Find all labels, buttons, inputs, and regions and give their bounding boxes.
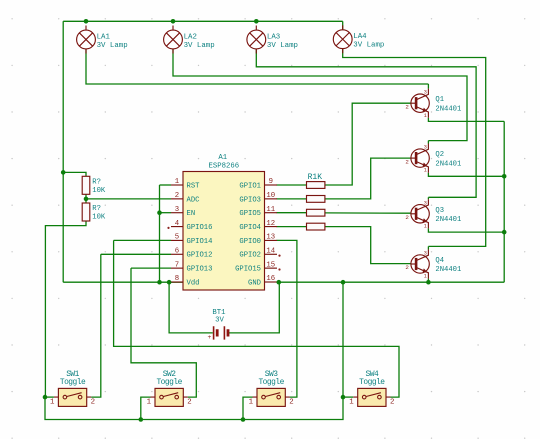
svg-text:3: 3 (424, 145, 427, 151)
svg-text:GPIO1: GPIO1 (239, 182, 261, 190)
svg-text:Q3: Q3 (435, 207, 444, 215)
wire R3 to Q3 base (325, 212, 411, 214)
lamp LA3 3V Lamp (247, 26, 298, 54)
junction LA2 top on rail (171, 19, 176, 24)
svg-text:EN: EN (187, 210, 196, 218)
wire pin 11 to R3 (277, 212, 307, 214)
wire RST pin 1 (160, 184, 172, 186)
svg-text:1: 1 (424, 223, 427, 229)
junction EN tap (157, 210, 162, 215)
svg-text:3: 3 (175, 206, 179, 214)
wire rail drop to LA4 (342, 21, 344, 29)
junction divider midpoint / ADC (84, 197, 89, 202)
svg-text:ADC: ADC (187, 196, 201, 204)
wire Q1 collector stub join (427, 84, 429, 89)
svg-text:5: 5 (175, 234, 179, 242)
wire GPIO14 to SW4 pin 2 (114, 240, 399, 397)
svg-text:4: 4 (175, 220, 180, 228)
wire pin 10 to R2 (277, 198, 307, 200)
svg-text:A1: A1 (218, 154, 227, 162)
wire LA4 bottom to Q4 collector (343, 49, 486, 247)
svg-text:12: 12 (266, 220, 275, 228)
switch SW3 Toggle (249, 370, 294, 407)
lamp LA2 3V Lamp (164, 26, 215, 54)
junction SW1 pin 1 (43, 395, 48, 400)
svg-text:7: 7 (175, 261, 179, 269)
svg-text:Q1: Q1 (435, 96, 444, 104)
wire top supply rail (lamp commons) (63, 20, 343, 22)
junction Q3 emitter on emitter bus (502, 230, 507, 235)
wire bus to SW1 pin 1 (45, 396, 54, 398)
wire emitter bus vertical (503, 121, 505, 282)
svg-text:LA2: LA2 (184, 33, 197, 41)
resistor R4 (R1K network) (307, 223, 325, 230)
wire bus to SW2 pin 1 (141, 397, 151, 419)
junction SW3 drop on bus (241, 417, 246, 422)
svg-text:LA4: LA4 (353, 33, 367, 41)
svg-text:LA3: LA3 (267, 33, 280, 41)
svg-text:Toggle: Toggle (156, 378, 182, 387)
wire LA1 bottom to Q1 collector (86, 49, 428, 84)
svg-text:Q2: Q2 (435, 151, 444, 159)
svg-text:10K: 10K (92, 187, 106, 195)
switch SW2 Toggle (147, 370, 192, 407)
junction rail to divider (61, 170, 66, 175)
wire left supply rail down to Vdd line (62, 21, 64, 282)
svg-text:LA1: LA1 (97, 33, 111, 41)
junction SW4 pin 1 (341, 395, 346, 400)
svg-text:11: 11 (266, 206, 275, 214)
svg-text:2: 2 (405, 158, 409, 165)
svg-text:ESP8266: ESP8266 (208, 163, 239, 171)
svg-text:2: 2 (390, 399, 394, 407)
op-amp/IC A1 ESP8266 (167, 154, 280, 290)
resistor R2 (R1K network) (307, 196, 325, 203)
wire Q3 emitter to emitter bus (428, 228, 504, 232)
junction switch bus on GND line (341, 280, 346, 285)
svg-text:3: 3 (424, 200, 427, 206)
wire LA3 bottom to Q3 collector (256, 49, 476, 198)
svg-text:3V Lamp: 3V Lamp (97, 42, 128, 50)
svg-text:Toggle: Toggle (258, 378, 284, 387)
svg-text:Vdd: Vdd (187, 279, 200, 287)
svg-text:2: 2 (91, 399, 95, 407)
wire RST/EN tie vertical to Vdd line (159, 185, 161, 282)
resistor R3 (R1K network) (307, 209, 325, 216)
battery BT1 3V (208, 309, 228, 341)
transistor Q3 2N4401 NPN (405, 199, 461, 229)
svg-text:GPIO15: GPIO15 (235, 266, 261, 274)
svg-text:8: 8 (175, 275, 179, 283)
lamp LA4 3V Lamp (333, 25, 384, 53)
switch SW4 Toggle (349, 370, 394, 407)
wire GPIO14 pin 5 (114, 239, 171, 241)
svg-text:GPIO4: GPIO4 (239, 224, 261, 232)
junction LA3 top on rail (254, 19, 259, 24)
wire pin 12 to R4 (277, 226, 307, 228)
svg-text:2: 2 (405, 103, 409, 110)
wire EN pin 3 (160, 212, 172, 214)
svg-text:Toggle: Toggle (60, 378, 86, 387)
wire bus to SW3 pin 1 (243, 397, 253, 419)
junction Q2 emitter on emitter bus (502, 174, 507, 179)
svg-text:14: 14 (266, 247, 275, 255)
wire rail to divider top R7a (63, 172, 86, 176)
svg-text:GPIO16: GPIO16 (187, 224, 213, 232)
svg-text:3: 3 (424, 251, 427, 257)
lamp LA1 3V Lamp (77, 26, 128, 54)
wire GND line: pin 16 to emitter bus (277, 281, 505, 283)
svg-text:1: 1 (175, 178, 180, 186)
svg-text:13: 13 (266, 234, 275, 242)
svg-text:6: 6 (175, 247, 179, 255)
transistor Q1 2N4401 NPN (405, 89, 461, 119)
svg-text:2N4401: 2N4401 (435, 266, 461, 274)
svg-text:GPIO0: GPIO0 (239, 238, 261, 246)
wire Q2 collector stub join (427, 141, 429, 144)
svg-text:+: + (208, 334, 212, 341)
svg-text:1: 1 (424, 274, 427, 280)
svg-text:1: 1 (424, 113, 427, 119)
wire GPIO12 pin 6 (101, 253, 171, 255)
svg-text:2: 2 (405, 264, 409, 271)
junction RST/EN tie on Vdd line (157, 280, 162, 285)
svg-text:2: 2 (175, 192, 179, 200)
svg-text:GPIO12: GPIO12 (187, 252, 213, 260)
svg-text:R1K: R1K (308, 173, 323, 182)
transistor Q4 2N4401 NPN (405, 249, 461, 279)
svg-text:15: 15 (266, 261, 275, 269)
wire R2 to Q2 base (325, 158, 411, 199)
wire Q4 collector stub join (427, 246, 429, 249)
wire between divider resistors (85, 194, 87, 203)
svg-text:3V Lamp: 3V Lamp (184, 42, 215, 50)
svg-text:Q4: Q4 (435, 257, 444, 265)
svg-text:R?: R? (92, 179, 101, 187)
svg-text:10K: 10K (92, 214, 106, 222)
svg-text:R?: R? (92, 205, 101, 213)
junction LA1 top on rail (84, 19, 89, 24)
wire GPIO0 pin 13 to SW3 pin 2 (277, 240, 297, 397)
wire R4 to Q4 base (325, 227, 411, 264)
wire Vdd line: rail to pin 8 Vdd (63, 281, 183, 283)
svg-text:1: 1 (424, 168, 427, 174)
wire R1 to Q1 base (325, 103, 411, 185)
svg-text:2: 2 (289, 399, 293, 407)
svg-text:GPIO14: GPIO14 (187, 238, 213, 246)
svg-text:GND: GND (248, 279, 261, 287)
resistor R? 10K (82, 176, 106, 195)
transistor Q2 2N4401 NPN (405, 144, 461, 174)
svg-text:3V Lamp: 3V Lamp (353, 42, 384, 50)
wire GND to switch common bus (45, 282, 343, 419)
wire GPIO12 to SW1 pin 2 (91, 254, 101, 397)
svg-text:9: 9 (269, 178, 273, 186)
svg-text:GPIO5: GPIO5 (239, 210, 261, 218)
resistor R? 10K (82, 203, 106, 222)
junction battery negative on GND line (277, 280, 282, 285)
svg-text:3: 3 (424, 90, 427, 96)
svg-text:2N4401: 2N4401 (435, 105, 461, 113)
svg-text:Toggle: Toggle (359, 378, 385, 387)
wire pin 9 to R1 (277, 184, 307, 186)
svg-text:1: 1 (249, 399, 254, 407)
wire GPIO13 to SW2 pin 2 (131, 268, 196, 397)
svg-text:1: 1 (147, 399, 152, 407)
svg-text:2N4401: 2N4401 (435, 216, 461, 224)
junction SW2 drop on bus (139, 417, 144, 422)
wire Q2 emitter to emitter bus (428, 173, 504, 177)
svg-text:GPIO2: GPIO2 (239, 252, 261, 260)
svg-text:16: 16 (266, 275, 275, 283)
wire LA2 bottom to Q2 collector (173, 49, 467, 141)
svg-text:3V Lamp: 3V Lamp (267, 42, 298, 50)
svg-text:2N4401: 2N4401 (435, 160, 461, 168)
svg-text:3V: 3V (215, 317, 224, 325)
wire battery negative to GND line (229, 282, 280, 333)
wire Vdd line to battery positive (169, 282, 213, 333)
switch SW1 Toggle (50, 370, 95, 407)
resistor R1 (R1K network) (307, 182, 325, 189)
wire Q4 emitter to GND line (427, 279, 429, 283)
junction Q4 emitter on GND line (426, 280, 431, 285)
svg-text:GPIO3: GPIO3 (239, 196, 261, 204)
wire R7b bottom to SW1 pin 1 (45, 221, 86, 397)
svg-text:GPIO13: GPIO13 (187, 266, 213, 274)
wire Q1 emitter to emitter bus (428, 118, 504, 122)
svg-text:1: 1 (50, 399, 55, 407)
junction battery positive on Vdd line (167, 280, 172, 285)
svg-text:RST: RST (187, 182, 201, 190)
svg-text:1: 1 (349, 399, 354, 407)
wire bus to SW4 pin 1 (343, 396, 353, 398)
wire divider midpoint to ADC pin 2 (86, 198, 171, 200)
svg-text:2: 2 (187, 399, 191, 407)
svg-text:2: 2 (405, 214, 409, 221)
svg-text:10: 10 (266, 192, 275, 200)
wire GPIO13 pin 7 (131, 267, 171, 269)
wire Q3 collector stub join (427, 197, 429, 199)
